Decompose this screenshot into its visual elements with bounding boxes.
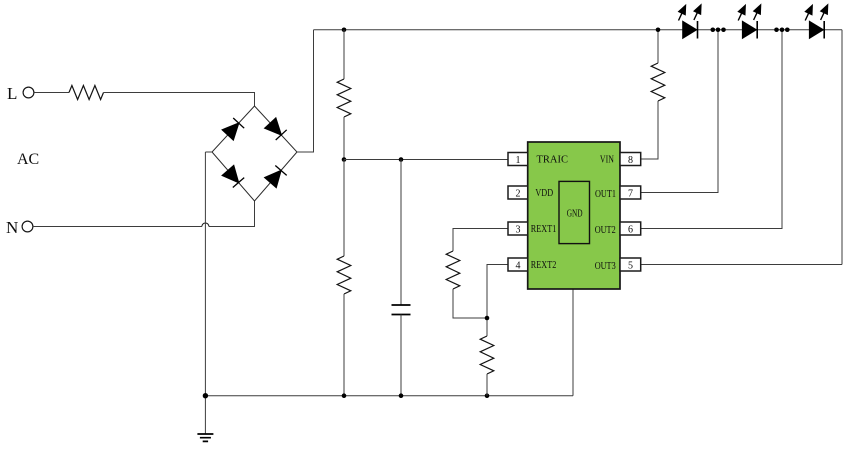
wire R5 to bottom rail [486,374,488,396]
terminal N [22,221,33,232]
diode D2 (top to right) [265,118,287,140]
terminal L [23,87,34,98]
wire x401 capacitor top lead [400,160,402,306]
LED D6 arrows [738,5,761,21]
U1 pin label OUT3 [595,261,616,272]
resistor R2 [337,79,351,117]
LED D6 [742,21,757,39]
node junction at x487 y318 [485,316,490,321]
label L [7,84,17,103]
U1 pin label VIN [600,155,614,166]
svg-text:OUT2: OUT2 [595,225,616,236]
svg-text:VDD: VDD [535,188,553,199]
resistor R1 [69,86,104,100]
wire right edge down to OUT3 row [841,30,843,265]
svg-text:7: 7 [628,189,633,200]
U1 pin label TRAIC [537,155,569,166]
capacitor C1 [392,305,411,315]
diode D1 (left to top) [222,118,244,140]
wire x344 upper segment [343,30,345,79]
svg-text:6: 6 [628,225,633,236]
wire x344 lower segment [343,160,345,257]
wire bridge right vertex up to top rail [297,30,314,152]
svg-text:AC: AC [17,151,39,168]
U1 pin label REXT2 [531,260,557,271]
wire VIN branch [641,30,658,159]
svg-text:3: 3 [516,225,521,236]
U1 pin label OUT2 [595,225,616,236]
U1 pin label REXT1 [531,224,557,235]
node junction row1 at x401 [399,157,404,162]
label AC [17,151,39,168]
resistor R5 [480,336,494,374]
wire OUT1 branch [641,30,718,193]
node junction bottom rail at x487 [485,393,490,398]
wire row1 to pin1 [344,159,508,161]
node junction bottom rail at x344 [342,393,347,398]
U1 pin 6 box [620,222,641,236]
wire top rail [314,29,843,31]
wire R3 to bottom rail [343,294,345,396]
node ellipsis dots after D5 [711,27,726,32]
node junction top rail at x658 [656,27,661,32]
label N [6,218,18,237]
LED D7 [809,21,824,39]
svg-text:OUT3: OUT3 [595,261,616,272]
svg-text:L: L [7,84,17,103]
LED D5 [683,21,698,39]
wire R2 to row1 [343,117,345,160]
wire bridge left vertex to ground rail [205,152,212,434]
wire IC ground lead [572,289,574,396]
U1 pin label VDD [535,188,553,199]
resistor R3 [337,256,351,294]
diode D3 (left to bottom) [222,166,244,188]
node ellipsis dots after D6 [774,27,789,32]
LED D7 arrows [805,5,828,21]
U1 GND pad [559,181,590,243]
svg-text:TRAIC: TRAIC [537,155,569,166]
U1 pin 7 box [620,186,641,200]
U1 pin label OUT1 [595,189,616,200]
node junction top rail at x344 [342,27,347,32]
node junction row1 at x344 [342,157,347,162]
U1 pin 2 box [508,186,528,200]
U1 pin 5 box [620,258,641,272]
op-amp U1 body [528,142,620,289]
svg-text:N: N [6,218,18,237]
svg-text:1: 1 [516,155,521,166]
U1 pin 1 box [508,153,528,167]
ground [197,434,213,441]
svg-text:OUT1: OUT1 [595,189,616,200]
svg-text:8: 8 [628,155,633,166]
svg-text:GND: GND [567,209,583,220]
resistor R6 [651,63,665,101]
diode D4 (bottom to right) [265,166,287,188]
U1 pin 4 box [508,258,528,272]
wire N lead with hop over ground wire [33,201,255,227]
svg-text:4: 4 [516,261,521,272]
svg-text:2: 2 [516,189,521,200]
node junction bottom rail at x205 [203,393,208,398]
wire bottom rail [205,395,573,397]
svg-text:REXT2: REXT2 [531,260,557,271]
svg-text:5: 5 [628,261,633,272]
LED D5 arrows [679,5,702,21]
wire OUT2 branch [641,30,782,229]
wire OUT3 branch [641,264,842,266]
wire L lead [34,92,69,94]
U1 pin 3 box [508,222,528,236]
wire capacitor bottom lead [400,315,402,396]
bridge rectifier diamond [212,106,297,201]
svg-text:VIN: VIN [600,155,614,166]
svg-text:REXT1: REXT1 [531,224,557,235]
node junction bottom rail at x401 [399,393,404,398]
resistor R4 [446,251,460,289]
wire L to bridge top vertex [104,93,255,107]
wire hop arc [202,223,209,227]
U1 pin 8 box [620,153,641,167]
wire REXT1 branch [453,229,508,319]
wire REXT2 branch [487,265,508,337]
